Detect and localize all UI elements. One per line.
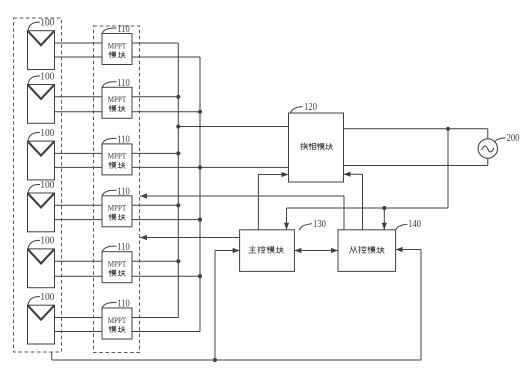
svg-text:110: 110 <box>117 299 130 310</box>
svg-text:200: 200 <box>507 133 520 144</box>
svg-text:100: 100 <box>40 128 54 139</box>
svg-text:MPPT: MPPT <box>108 151 127 161</box>
svg-text:110: 110 <box>117 24 130 35</box>
svg-text:100: 100 <box>40 236 54 247</box>
svg-text:110: 110 <box>117 78 130 89</box>
svg-text:140: 140 <box>408 219 421 230</box>
svg-text:130: 130 <box>313 219 326 230</box>
svg-text:MPPT: MPPT <box>108 259 127 269</box>
svg-text:MPPT: MPPT <box>108 94 127 104</box>
svg-text:MPPT: MPPT <box>108 203 127 213</box>
svg-text:100: 100 <box>40 180 54 191</box>
svg-text:100: 100 <box>40 18 54 29</box>
svg-text:MPPT: MPPT <box>108 315 127 325</box>
svg-text:120: 120 <box>304 102 317 113</box>
svg-text:100: 100 <box>40 292 54 303</box>
svg-text:MPPT: MPPT <box>108 40 127 50</box>
svg-text:110: 110 <box>117 242 130 253</box>
svg-text:110: 110 <box>117 134 130 145</box>
svg-text:100: 100 <box>40 71 54 82</box>
svg-text:110: 110 <box>117 186 130 197</box>
